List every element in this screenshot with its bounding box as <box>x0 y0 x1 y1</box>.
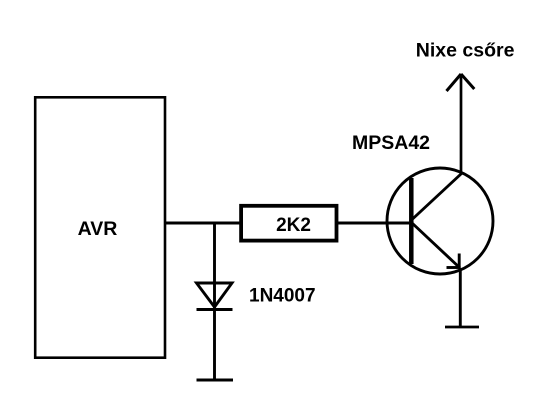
svg-text:AVR: AVR <box>78 218 118 240</box>
wire: resistor to transistor base <box>338 222 411 225</box>
AVR box U1 <box>35 97 165 357</box>
resistor R1 box <box>241 206 336 241</box>
wire: emitter down to ground <box>459 268 462 326</box>
wire: diode branch down from junction (passes through diode) <box>213 223 216 379</box>
ground (diode branch) <box>197 379 234 382</box>
arrow to Nixie (right barb) <box>461 74 474 89</box>
ground (emitter) <box>445 326 479 329</box>
diode D1 (1N4007) triangle <box>197 283 233 307</box>
transistor Q1 collector diagonal <box>412 174 462 220</box>
svg-text:MPSA42: MPSA42 <box>352 132 430 154</box>
svg-text:Nixe csőre: Nixe csőre <box>416 39 515 61</box>
transistor Q1 circle <box>387 168 493 274</box>
arrow to Nixie (left barb) <box>447 74 462 91</box>
transistor Q1 base bar <box>409 178 414 264</box>
svg-text:1N4007: 1N4007 <box>249 285 316 306</box>
emitter arrowhead barb (horizontal) <box>447 266 461 269</box>
wire: collector up to Nixie <box>460 74 463 175</box>
emitter arrowhead barb (vertical) <box>458 254 461 269</box>
diode D1 cathode bar <box>197 308 233 311</box>
svg-text:2K2: 2K2 <box>276 215 311 236</box>
wire: AVR output to resistor <box>165 222 241 225</box>
transistor Q1 emitter diagonal <box>412 223 460 268</box>
